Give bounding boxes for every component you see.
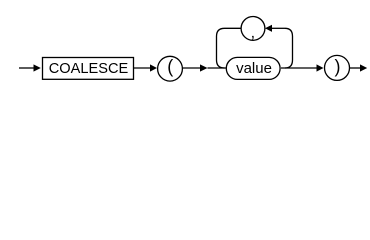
final exit arrowhead: [360, 64, 367, 71]
arrowhead into COALESCE box: [34, 64, 41, 71]
wire: box to open-paren: [134, 67, 151, 69]
svg-text:(: (: [167, 57, 173, 77]
box COALESCE (keyword): [43, 58, 134, 80]
wire: baseline junction to value: [208, 67, 229, 69]
loop right branch (top line down to baseline): [285, 28, 293, 68]
stadium value (non-terminal): [226, 57, 280, 79]
terminal circle ): [325, 55, 350, 80]
wire: close-paren to exit: [350, 67, 361, 69]
arrowhead into loop junction: [200, 64, 208, 71]
wire: entry line: [19, 67, 35, 69]
comma circle on loop: [241, 17, 265, 41]
svg-text:value: value: [236, 60, 272, 77]
loop left branch (baseline up to top line): [217, 28, 242, 68]
svg-text:COALESCE: COALESCE: [49, 61, 129, 77]
loop top-right wire: [272, 27, 286, 29]
svg-text:,: ,: [251, 24, 255, 41]
svg-text:): ): [335, 57, 341, 77]
arrowhead on loop pointing left into comma: [265, 25, 272, 32]
wire: open-paren to loop junction: [183, 67, 202, 69]
wire: value to close-paren: [281, 67, 317, 69]
arrowhead into open-paren circle: [150, 64, 157, 71]
arrowhead into close-paren circle: [317, 64, 324, 71]
terminal circle (: [158, 56, 183, 81]
